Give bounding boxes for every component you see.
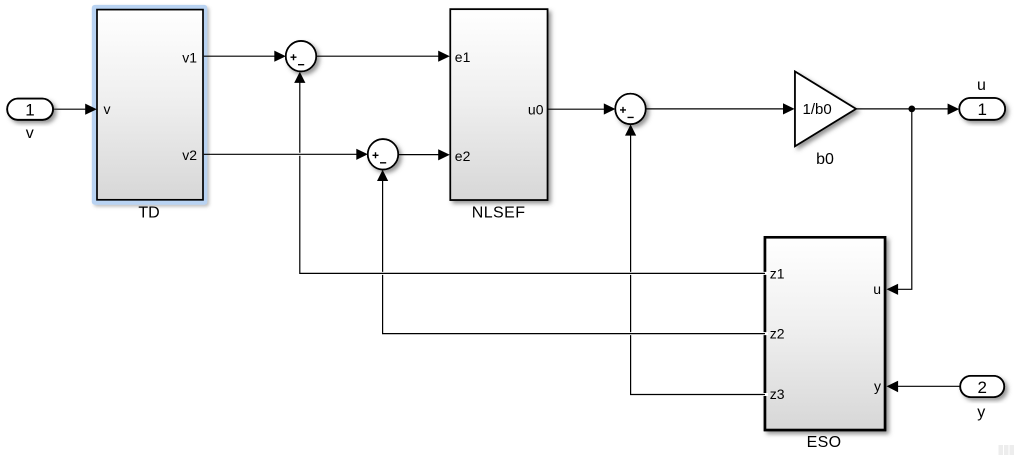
svg-text:e1: e1 bbox=[455, 49, 471, 65]
svg-text:u0: u0 bbox=[528, 101, 544, 117]
wire z3 ESO to sum S3 bbox=[625, 124, 768, 394]
svg-text:1: 1 bbox=[977, 100, 986, 119]
svg-text:v: v bbox=[104, 101, 111, 117]
gain 1/b0 bbox=[795, 72, 856, 147]
wire in2 to ESO y bbox=[887, 381, 961, 393]
svg-text:v1: v1 bbox=[182, 50, 197, 66]
svg-text:ESO: ESO bbox=[807, 434, 842, 451]
svg-text:NLSEF: NLSEF bbox=[472, 205, 526, 222]
svg-text:b0: b0 bbox=[816, 151, 834, 168]
subsystem ESO bbox=[765, 237, 885, 430]
wire TD v1 to sum S1 bbox=[204, 51, 286, 62]
wire junction down to ESO u bbox=[887, 109, 912, 295]
selection highlight around TD bbox=[92, 5, 208, 205]
wire sum S1 to NLSEF e1 bbox=[316, 51, 450, 62]
svg-text:v: v bbox=[26, 125, 34, 142]
junction dot bbox=[908, 106, 915, 113]
svg-text:2: 2 bbox=[977, 378, 986, 397]
svg-text:u: u bbox=[977, 77, 986, 94]
wire TD v2 to sum S2 bbox=[204, 149, 368, 160]
svg-text:z1: z1 bbox=[770, 265, 785, 281]
wire sum S3 to gain bbox=[646, 103, 795, 114]
subsystem NLSEF bbox=[450, 9, 547, 200]
wire sum S2 to NLSEF e2 bbox=[398, 149, 450, 160]
svg-text:1/b0: 1/b0 bbox=[803, 101, 832, 118]
svg-text:y: y bbox=[977, 404, 985, 421]
wire NLSEF u0 to sum S3 bbox=[548, 103, 616, 114]
svg-text:v2: v2 bbox=[182, 147, 197, 163]
svg-text:z3: z3 bbox=[770, 386, 785, 402]
sum S1 bbox=[286, 41, 316, 71]
wire gain to out1 bbox=[856, 104, 959, 115]
sum S2 bbox=[368, 139, 398, 169]
outport 1 (u) bbox=[959, 98, 1005, 120]
svg-text:y: y bbox=[874, 378, 881, 394]
inport 1 (v) bbox=[7, 99, 53, 120]
svg-text:z2: z2 bbox=[770, 326, 785, 342]
wire z1 ESO to sum S1 bbox=[294, 72, 768, 274]
wire z2 ESO to sum S2 bbox=[377, 170, 768, 334]
inport 2 (y) bbox=[960, 376, 1004, 397]
wire in1 to TD bbox=[53, 104, 97, 115]
watermark bars bottom right bbox=[999, 445, 1014, 455]
subsystem TD bbox=[97, 10, 203, 200]
svg-text:e2: e2 bbox=[455, 148, 471, 164]
svg-text:1: 1 bbox=[25, 101, 34, 120]
svg-text:TD: TD bbox=[138, 205, 159, 222]
sum S3 bbox=[615, 94, 645, 124]
svg-text:u: u bbox=[873, 281, 881, 297]
